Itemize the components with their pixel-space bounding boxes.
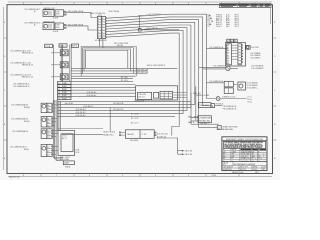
svg-text:+ MLA/PH/LMB: + MLA/PH/LMB <box>199 117 212 120</box>
panel interconnect wires <box>231 45 238 59</box>
svg-text:GA 02 B4: GA 02 B4 <box>185 153 192 156</box>
inline unit 24 <box>217 126 221 130</box>
lamp unit LU3 <box>10 73 68 79</box>
svg-text:+PQE NE B-5: +PQE NE B-5 <box>75 112 86 114</box>
svg-text:HD DASH LPM: HD DASH LPM <box>95 39 107 42</box>
svg-text:LTG 4.3MM BK(A) 94: LTG 4.3MM BK(A) 94 <box>12 130 28 133</box>
panel connector P1 <box>227 44 232 65</box>
svg-text:5: 5 <box>98 29 99 31</box>
zone letters right margin <box>273 22 277 160</box>
svg-text:6: 6 <box>89 3 90 5</box>
svg-text:C2: C2 <box>47 134 49 136</box>
branch callout box <box>198 116 212 123</box>
title block heading <box>222 138 267 141</box>
svg-text:DASH: DASH <box>64 162 69 165</box>
bundle wire f <box>59 101 61 130</box>
dash lamp box <box>63 161 74 165</box>
svg-text:PKL/BL.A: PKL/BL.A <box>216 103 224 106</box>
stub wires T3 <box>53 131 58 137</box>
svg-text:BT 4 LT B: BT 4 LT B <box>131 118 139 120</box>
svg-text:B: B <box>258 151 259 153</box>
svg-text:YEL 0.8: YEL 0.8 <box>216 26 222 28</box>
bus wire left <box>53 45 55 104</box>
svg-text:LTG 4.3MM C+: LTG 4.3MM C+ <box>247 88 258 90</box>
nested wire loop 1 <box>81 47 136 77</box>
svg-text:GA 01 B4: GA 01 B4 <box>185 150 192 153</box>
svg-text:SHT 1: SHT 1 <box>255 172 259 174</box>
svg-text:RED 1.0: RED 1.0 <box>216 18 222 20</box>
wire to cab dome lower <box>62 134 103 136</box>
wire harness run 6 <box>58 28 188 111</box>
svg-text:MM BLK-B 4.3: MM BLK-B 4.3 <box>22 65 33 67</box>
svg-text:MM BLK-C 4.3: MM BLK-C 4.3 <box>22 77 33 79</box>
wire to panel connector <box>207 46 228 49</box>
svg-text:+ALL MUM: +ALL MUM <box>64 102 73 105</box>
sheet frame <box>4 2 273 177</box>
svg-text:APD 4 OPM 4.3M BT A: APD 4 OPM 4.3M BT A <box>147 64 165 67</box>
wire harness run 1 <box>107 14 216 98</box>
svg-text:SHT 3: SHT 3 <box>235 24 239 26</box>
label box L1 <box>45 44 53 48</box>
svg-text:BT 4 LT A: BT 4 LT A <box>131 113 139 116</box>
svg-text:RED 1.0: RED 1.0 <box>216 20 222 22</box>
svg-text:A5: A5 <box>227 54 229 57</box>
wire LP2 to connector <box>67 24 98 30</box>
svg-text:SD: SD <box>258 158 260 160</box>
svg-text:8: 8 <box>98 37 99 39</box>
svg-text:5: 5 <box>122 175 123 177</box>
svg-text:B3: B3 <box>47 125 49 127</box>
dome lamp wire C <box>71 72 149 74</box>
tail lamp unit T4 <box>10 145 53 157</box>
panel header tag 2 <box>230 39 233 43</box>
svg-text:7: 7 <box>56 3 57 5</box>
inline unit 24 labels <box>222 125 238 130</box>
svg-text:L4: L4 <box>58 92 60 94</box>
bus wire pair a <box>60 45 62 82</box>
svg-text:6: 6 <box>98 32 99 34</box>
svg-text:PM 4.3MM BLK B: PM 4.3MM BLK B <box>223 109 237 111</box>
inline unit A <box>211 104 215 108</box>
group A wire 7 <box>71 94 136 97</box>
svg-text:+PQE NE B-4: +PQE NE B-4 <box>75 109 86 111</box>
sheet number strip <box>232 171 259 174</box>
svg-text:CBL GB: CBL GB <box>223 163 228 165</box>
svg-text:BLK/GRN: BLK/GRN <box>131 140 139 142</box>
bus wire pair c <box>69 45 71 82</box>
svg-text:o: o <box>253 153 254 155</box>
panel connector P2 <box>238 44 243 65</box>
svg-text:C3: C3 <box>47 137 49 139</box>
svg-text:22-1: 22-1 <box>230 161 233 163</box>
svg-text:LTG 4.3MM A+: LTG 4.3MM A+ <box>247 81 258 84</box>
wire BT B1 <box>138 28 179 31</box>
svg-text:SHT 1: SHT 1 <box>235 16 239 18</box>
svg-text:4: 4 <box>155 3 156 5</box>
svg-text:B+4.3 P-LG-A: B+4.3 P-LG-A <box>157 133 168 136</box>
svg-text:8: 8 <box>23 3 24 5</box>
svg-text:LT-3: LT-3 <box>207 18 210 20</box>
utility lamp module UB1 <box>136 86 178 100</box>
svg-text:A2: A2 <box>227 47 229 50</box>
svg-text:REV: REV <box>251 149 254 151</box>
svg-text:BLK 4.3: BLK 4.3 <box>138 96 144 98</box>
tail lamp unit T1 <box>11 103 53 113</box>
ground symbol G1 <box>182 150 192 153</box>
svg-text:2: 2 <box>98 21 99 23</box>
bus wire pair d <box>70 45 72 82</box>
drop wire to dome assembly <box>109 107 111 131</box>
svg-text:BT xy: BT xy <box>248 101 252 103</box>
wire harness run 2 <box>107 17 211 106</box>
svg-text:LT-2: LT-2 <box>207 16 210 18</box>
svg-text:MODEL FLD: MODEL FLD <box>241 158 249 160</box>
svg-text:B+ B: B+ B <box>226 16 229 18</box>
lower cluster connector <box>224 81 233 93</box>
svg-text:BK(B): BK(B) <box>24 149 29 151</box>
svg-text:D.LEE: D.LEE <box>230 154 234 156</box>
inline unit A callout <box>198 103 211 108</box>
svg-text:A4: A4 <box>227 52 229 55</box>
svg-text:BT 4.3 A: BT 4.3 A <box>121 76 128 79</box>
cab dome right label <box>157 133 168 139</box>
branch callout feed 2 <box>191 120 198 122</box>
title block data text <box>223 148 261 163</box>
svg-text:FSCM 23456: FSCM 23456 <box>241 154 250 156</box>
group A wire 3 <box>71 84 136 86</box>
svg-text:LTG 4.3MM BLK-A 21: LTG 4.3MM BLK-A 21 <box>24 8 40 11</box>
svg-text:LT: LT <box>258 161 260 163</box>
branch callout feed 1 <box>191 117 198 119</box>
svg-text:F: F <box>102 32 103 34</box>
svg-text:BLK 0.8: BLK 0.8 <box>216 22 222 24</box>
svg-text:LTG 4.3M A60 B: LTG 4.3M A60 B <box>251 67 264 70</box>
splice S1 <box>226 66 230 70</box>
svg-text:EXT LTG: EXT LTG <box>240 169 247 171</box>
cab dome lamp assembly <box>103 130 156 139</box>
dome lamp wire D <box>71 75 135 77</box>
svg-text:D3: D3 <box>47 154 49 156</box>
svg-text:4: 4 <box>98 26 99 28</box>
title block frame <box>222 137 267 171</box>
svg-text:4PD NE BT A: 4PD NE BT A <box>113 102 124 105</box>
bundle wire e <box>58 101 60 130</box>
panel header tag 1 <box>227 39 230 43</box>
svg-text:LT-4: LT-4 <box>207 20 210 22</box>
tail lamp unit T2 <box>11 117 53 128</box>
group A wire 5 <box>71 89 136 91</box>
inline unit A out wire <box>215 103 237 111</box>
svg-text:30-2: 30-2 <box>223 164 226 166</box>
svg-text:A7: A7 <box>227 60 229 63</box>
svg-text:6: 6 <box>89 175 90 177</box>
bundle wire d <box>57 100 59 131</box>
svg-text:LT TM: LT TM <box>142 134 147 136</box>
wire harness run 5 <box>58 25 191 107</box>
svg-text:R.SMITH: R.SMITH <box>230 149 236 151</box>
group A wire 6 <box>71 91 136 94</box>
svg-text:BLK 0.8: BLK 0.8 <box>216 24 222 26</box>
group B wire 6 <box>58 115 176 117</box>
lower cluster wire in <box>207 81 225 83</box>
revision table header <box>220 4 272 8</box>
svg-text:4: 4 <box>155 175 156 177</box>
svg-text:LTG 4.3 A: LTG 4.3 A <box>251 46 259 49</box>
svg-text:1A-60297-000: 1A-60297-000 <box>232 171 243 174</box>
svg-text:A1: A1 <box>227 44 229 47</box>
svg-text:BLA/TO BLK-A: BLA/TO BLK-A <box>103 131 115 134</box>
svg-text:REL: REL <box>223 158 226 160</box>
svg-text:BT B: BT B <box>226 20 229 22</box>
svg-text:A2: A2 <box>47 107 49 110</box>
nested wire loop 2 <box>83 48 134 74</box>
connector C100 body <box>97 16 107 39</box>
svg-text:A8: A8 <box>227 62 229 65</box>
wire harness run 4 <box>58 22 195 104</box>
svg-text:LTG 4.3MM BLK-B 21: LTG 4.3MM BLK-B 21 <box>24 22 41 24</box>
svg-text:B+: B+ <box>34 24 36 26</box>
panel header tag 3 <box>234 39 237 43</box>
junction box J1 bottom label <box>60 156 71 161</box>
svg-text:A3: A3 <box>227 49 229 52</box>
svg-text:3: 3 <box>98 23 99 25</box>
svg-text:B+: B+ <box>34 11 36 13</box>
svg-text:D2: D2 <box>47 150 49 152</box>
svg-text:8: 8 <box>23 175 24 177</box>
svg-text:MA DAVIS AM: MA DAVIS AM <box>222 128 233 131</box>
svg-text:+PQE NE B-2: +PQE NE B-2 <box>83 106 94 108</box>
zone letters left margin <box>4 22 7 160</box>
connector C100 drop wires <box>98 39 100 47</box>
svg-text:+DPMS NEYB: +DPMS NEYB <box>133 101 145 103</box>
nested wire loop 4 <box>85 50 127 68</box>
ruler ticks bottom <box>23 174 239 178</box>
junction box J1 <box>58 131 75 156</box>
svg-text:J5-60297-000: J5-60297-000 <box>223 169 232 171</box>
svg-text:C1: C1 <box>47 130 49 132</box>
svg-text:MLK OPM (A): MLK OPM (A) <box>109 10 120 13</box>
svg-text:4821: 4821 <box>230 158 233 160</box>
wire LP1 to connector <box>67 10 98 17</box>
title block bottom row <box>222 166 267 172</box>
branch wire label row 2 <box>191 122 219 125</box>
wire harness run 8 <box>107 33 179 135</box>
ground drop 2 <box>178 151 182 155</box>
svg-text:BLK(B): BLK(B) <box>24 121 30 123</box>
splice S2 out wire <box>220 96 252 104</box>
lower cluster lamp <box>238 82 246 90</box>
svg-text:CAB DM: CAB DM <box>127 133 134 136</box>
wire BT B1 upper label <box>138 14 161 16</box>
svg-text:LTG 4.3MM C: LTG 4.3MM C <box>250 58 261 60</box>
title block data grid <box>222 148 267 161</box>
svg-text:A6: A6 <box>227 57 229 60</box>
svg-text:DOOR: DOOR <box>53 31 59 33</box>
svg-text:L3: L3 <box>58 89 60 91</box>
ruler ticks top <box>23 2 256 5</box>
wire harness run 3 <box>107 20 217 128</box>
lower cluster labels <box>247 81 258 89</box>
svg-text:BT 4 LT C: BT 4 LT C <box>131 122 139 124</box>
panel outer box <box>226 42 246 66</box>
svg-text:A1: A1 <box>47 104 49 107</box>
svg-text:4PD NE BT B: 4PD NE BT B <box>113 109 124 111</box>
svg-text:3: 3 <box>188 3 189 5</box>
corner splice stubs <box>209 15 213 25</box>
title block title row <box>222 162 267 167</box>
mid vertical feeder b <box>195 87 197 121</box>
svg-text:7: 7 <box>56 175 57 177</box>
svg-text:1A-60297-000: 1A-60297-000 <box>9 175 20 178</box>
svg-text:D1: D1 <box>47 146 49 148</box>
svg-text:B2: B2 <box>263 169 265 171</box>
svg-text:BLA/BLU B-2: BLA/BLU B-2 <box>103 134 113 137</box>
svg-text:SHT 1 OF 3: SHT 1 OF 3 <box>240 167 248 169</box>
splice block SB1 <box>13 82 71 101</box>
svg-text:LT-6: LT-6 <box>207 24 210 26</box>
wire list rows <box>207 13 239 28</box>
panel right labels <box>250 52 264 70</box>
svg-text:CHK: CHK <box>223 151 226 153</box>
nested wire loop 3 <box>84 49 131 71</box>
stub wires T1 <box>53 105 58 111</box>
svg-text:120: 120 <box>251 158 254 160</box>
svg-text:3: 3 <box>188 175 189 177</box>
stub wires T4 <box>53 146 58 154</box>
svg-text:GRD A: GRD A <box>65 165 71 168</box>
svg-text:BLK(A): BLK(A) <box>24 106 30 109</box>
label box L2 <box>59 44 67 48</box>
splice S1 out wire <box>230 67 238 69</box>
svg-text:L6: L6 <box>58 98 60 100</box>
svg-text:LT-1: LT-1 <box>207 14 210 16</box>
label box L3 <box>72 44 79 48</box>
wire to cab dome label <box>58 128 104 130</box>
svg-text:MM BLK-A 4.3: MM BLK-A 4.3 <box>22 52 33 55</box>
wire harness run 7 <box>58 30 184 113</box>
svg-text:WALL LPM B: WALL LPM B <box>188 116 199 119</box>
svg-text:GRN 0.8: GRN 0.8 <box>216 16 222 18</box>
svg-text:LT-5: LT-5 <box>207 22 210 24</box>
svg-text:SIZE: SIZE <box>251 151 254 153</box>
junction box J1 right label <box>76 149 81 154</box>
svg-text:L5: L5 <box>58 95 60 97</box>
tap wire down <box>139 16 141 29</box>
svg-text:GRN 0.8: GRN 0.8 <box>216 14 222 16</box>
wire dome to ground drops <box>156 138 182 151</box>
svg-text:+ LG/R 4.3M BT B1: + LG/R 4.3M BT B1 <box>146 14 161 16</box>
group A wire 4 <box>71 87 136 89</box>
svg-text:PMS/BLK 4.3MM: PMS/BLK 4.3MM <box>196 95 210 97</box>
group A wire 1 <box>71 76 133 79</box>
svg-text:SHT 3: SHT 3 <box>235 22 239 24</box>
title block notice <box>223 141 265 149</box>
splice wires in <box>199 65 227 69</box>
lamp unit LU2 <box>10 61 68 67</box>
svg-text:WALL B: WALL B <box>188 121 195 124</box>
svg-text:LT-7: LT-7 <box>207 26 210 28</box>
splice S2 <box>216 97 220 101</box>
bundle wire c <box>56 100 63 160</box>
bundle wire b <box>55 100 64 159</box>
svg-text:T.JONES: T.JONES <box>230 151 236 153</box>
svg-text:GROUP 30: GROUP 30 <box>241 161 248 163</box>
svg-text:L2: L2 <box>58 86 60 88</box>
svg-text:22-00: 22-00 <box>212 175 216 177</box>
ground symbol G2 <box>182 153 192 156</box>
mid vertical feeder a <box>190 93 192 125</box>
svg-text:SHT 2: SHT 2 <box>235 20 239 22</box>
svg-text:PKL/BLK/NE: PKL/BLK/NE <box>199 105 210 107</box>
svg-text:10-94: 10-94 <box>253 169 257 171</box>
lamp unit LU1 <box>10 49 68 55</box>
svg-text:LTG 4.3MM BLK-B 21: LTG 4.3MM BLK-B 21 <box>13 86 30 88</box>
tail lamp unit T3 <box>12 129 53 139</box>
svg-text:L1: L1 <box>58 83 60 85</box>
svg-text:B1: B1 <box>47 118 49 120</box>
dome lamp wire A <box>71 64 177 68</box>
svg-text:5: 5 <box>122 3 123 5</box>
svg-text:DOOR: DOOR <box>53 18 59 20</box>
utility module wires right <box>173 93 188 98</box>
bus wire pair b <box>62 45 64 82</box>
revision mark cluster <box>244 153 264 159</box>
svg-text:1: 1 <box>98 18 99 20</box>
svg-text:DR: DR <box>223 149 225 151</box>
lower cluster wire mid <box>233 84 238 86</box>
svg-text:SHT 1: SHT 1 <box>235 14 239 16</box>
svg-text:SHT 3: SHT 3 <box>235 26 239 28</box>
bundle wire a <box>53 100 63 158</box>
clearance lamp CL1 <box>246 46 260 50</box>
svg-text:SHT 2: SHT 2 <box>235 18 239 20</box>
stub wires T2 <box>53 118 58 125</box>
marker lamp LP2 assembly <box>24 20 67 33</box>
svg-text:A3: A3 <box>47 110 49 113</box>
group B wire 1b <box>58 101 192 105</box>
svg-text:B2: B2 <box>47 122 49 124</box>
svg-text:SYS: SYS <box>251 161 254 163</box>
dome lamp wire B <box>71 70 149 72</box>
marker lamp LP1 assembly <box>24 7 67 20</box>
svg-text:BK 2.1: BK 2.1 <box>62 138 67 140</box>
revision table side rule <box>269 8 271 24</box>
svg-text:24: 24 <box>218 128 220 130</box>
group A wire 2 <box>71 80 133 82</box>
